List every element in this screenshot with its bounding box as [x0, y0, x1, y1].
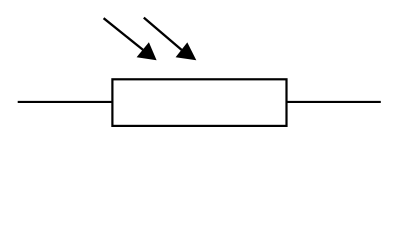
resistor LDR body	[112, 79, 286, 126]
wire left lead	[18, 101, 113, 103]
light arrow 2	[144, 18, 197, 61]
wire right lead	[287, 101, 381, 103]
light arrow 1	[104, 18, 157, 60]
